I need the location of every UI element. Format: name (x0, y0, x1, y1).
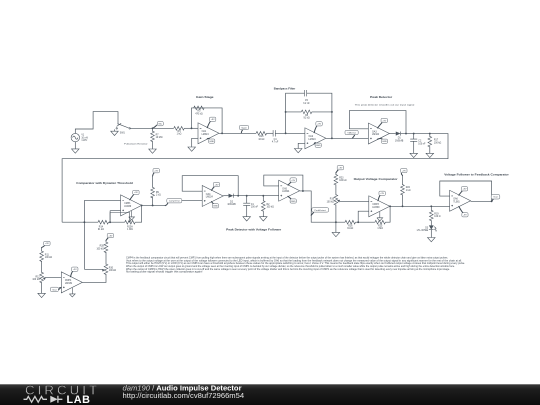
svg-text:4.7 uF: 4.7 uF (272, 142, 279, 144)
wire switch to R7 node (130, 127, 173, 129)
wire switch to ground stem (114, 129, 116, 131)
svg-text:R4: R4 (178, 131, 182, 133)
capacitor C5 (305, 90, 307, 96)
svg-text:100 kΩ: 100 kΩ (327, 201, 335, 203)
wire C1 top stub (246, 196, 248, 204)
svg-text:Vgain: Vgain (241, 127, 247, 129)
svg-text:Peak Detector: Peak Detector (370, 95, 393, 99)
resistor R7 (151, 131, 155, 142)
ground ground at D3 (428, 238, 436, 242)
node flag Vout (vout-oa6) (492, 199, 494, 201)
power flag +9V of OA6 (459, 191, 463, 196)
wire R22 bottom stub (402, 194, 404, 206)
capacitor C4 (273, 130, 275, 136)
wire R13 to C4 (267, 132, 274, 134)
voltage source V1 (71, 133, 79, 141)
wire C2 top stub (413, 134, 415, 140)
svg-text:1 MΩ: 1 MΩ (377, 228, 383, 230)
power flag +9V of OA5 (288, 182, 291, 185)
wire peak node run (233, 195, 278, 197)
node junction R8 branch right (331, 111, 333, 113)
wire OA3 feedback loop (349, 111, 406, 134)
wire OA1 output (219, 132, 256, 134)
power flag GND of OA1 (207, 137, 210, 140)
wire R26 to R25 (356, 221, 375, 223)
wire R17 top stub (429, 134, 431, 137)
svg-text:3.2 nF: 3.2 nF (303, 103, 310, 105)
power flag +9V of OA1 (207, 121, 210, 128)
node junction at D1 cathode (405, 133, 407, 135)
node junction hysteresis CMP3 (357, 221, 359, 223)
node flag Vout (vout-cmp4) (59, 287, 62, 289)
svg-text:LTL-307EE: LTL-307EE (417, 230, 429, 232)
svg-text:1 MΩ: 1 MΩ (127, 229, 133, 231)
potentiometer R30 (104, 264, 108, 275)
svg-text:R22: R22 (406, 187, 411, 189)
resistor R19 (429, 210, 433, 221)
svg-text:R12: R12 (35, 276, 40, 278)
op-amp OA4 (202, 185, 223, 206)
node junction at R7 top (152, 127, 154, 129)
svg-text:R19: R19 (434, 213, 439, 215)
wire R28 to R30 (105, 252, 107, 264)
svg-text:V1: V1 (81, 135, 85, 137)
wire CMP4 non-inverting stub (59, 286, 61, 288)
resistor R22 (401, 184, 405, 195)
svg-text:Vout: Vout (52, 288, 57, 291)
ground ground at OA1 (188, 147, 196, 151)
resistor R3 (194, 106, 205, 110)
wire OA4 output to D2 (223, 195, 228, 197)
wire CompVOut to OA4 non-inverting input (182, 200, 202, 202)
svg-text:91 kΩ: 91 kΩ (347, 228, 353, 230)
power flag +9V of OA3 (378, 122, 383, 128)
svg-text:LM324: LM324 (282, 191, 290, 193)
ground ground at SW1 (111, 131, 119, 135)
svg-text:R11: R11 (45, 254, 50, 256)
node junction at R2 top (262, 195, 264, 197)
svg-text:R9: R9 (156, 192, 160, 194)
svg-text:OA5: OA5 (282, 188, 287, 191)
node flag CompVOut (compvout) (165, 203, 168, 205)
svg-text:100 kΩ: 100 kΩ (96, 248, 104, 250)
node junction at OA1 inverting input (191, 127, 193, 129)
svg-text:OA1: OA1 (202, 130, 207, 133)
ground ground at R12 (38, 293, 46, 297)
svg-text:R2: R2 (267, 204, 271, 206)
switch SW1 (117, 123, 129, 128)
svg-text:10 MΩ: 10 MΩ (156, 137, 163, 139)
svg-text:Pull-Down Resistor: Pull-Down Resistor (124, 143, 148, 146)
svg-text:Voltage Follower to Feedback C: Voltage Follower to Feedback Comparator (444, 173, 509, 177)
svg-text:91 kΩ: 91 kΩ (98, 229, 104, 231)
wire OA3 output to D1 (389, 133, 395, 135)
power flag GND of CMP3 (377, 212, 383, 221)
node junction at R9 bottom (152, 204, 154, 206)
svg-text:R14: R14 (99, 226, 104, 228)
svg-text:C2: C2 (418, 141, 422, 143)
node junction at OA2 output (331, 137, 333, 139)
svg-text:Peak Detector with Voltage Fol: Peak Detector with Voltage Follower (226, 228, 282, 232)
svg-text:OA2: OA2 (309, 135, 314, 138)
ground ground at OA2 (294, 149, 302, 153)
node junction at R17 (429, 133, 431, 135)
node flag Vgain (vgain) (241, 130, 242, 133)
power flag +9V of OA4 (211, 187, 214, 191)
svg-text:CompVOut: CompVOut (169, 200, 180, 203)
wire OA5 feedback loop (264, 175, 303, 191)
power flag +9V (CMP1 VCC) (130, 194, 134, 200)
wire R4 to OA1 inverting input (184, 127, 198, 129)
wire C2 to ground (413, 141, 415, 153)
ground ground at R2 (260, 217, 268, 221)
wire OA4 feedback loop (182, 176, 238, 196)
wire R22 top stub (402, 175, 404, 185)
wire CMP4 output riser (82, 274, 106, 282)
wire V1 top to switch (75, 112, 118, 134)
node junction at R16 bottom (335, 221, 337, 223)
svg-text:CMP4: CMP4 (65, 280, 72, 282)
comparator CMP1 (121, 195, 142, 216)
power flag GND of OA2 (314, 143, 316, 144)
wire R12 to ground (41, 282, 43, 293)
wire R25 to CMP3 output riser (385, 206, 390, 222)
svg-text:CMP3: CMP3 (372, 204, 379, 206)
op-amp OA5 (279, 180, 300, 201)
svg-text:91 kΩ: 91 kΩ (304, 118, 310, 120)
svg-text:TL081: TL081 (453, 201, 460, 203)
resistor R11 (40, 251, 44, 262)
node junction at OA6 output (491, 200, 493, 202)
capacitor C1 (243, 203, 250, 205)
wire LED to ground (430, 230, 432, 238)
svg-text:R7: R7 (156, 134, 160, 136)
op-amp OA1 (198, 123, 219, 144)
svg-text:1N914B: 1N914B (395, 140, 404, 142)
resistor R17 (428, 136, 432, 147)
wire R23 top stub (335, 173, 337, 175)
svg-text:R15A: R15A (127, 225, 133, 228)
ground ground at V1 (72, 149, 80, 153)
svg-text:R28: R28 (100, 246, 105, 248)
node junction hysteresis mid (109, 221, 111, 223)
svg-text:1 kHz: 1 kHz (81, 140, 88, 142)
svg-text:http://circuitlab.com/cv8uf729: http://circuitlab.com/cv8uf72966m54 (123, 391, 245, 400)
svg-text:100 kΩ: 100 kΩ (434, 142, 442, 144)
node junction at OA5 output (302, 190, 304, 192)
svg-text:C4: C4 (274, 139, 278, 141)
node junction at CMP1 output (141, 204, 143, 206)
ground ground at C1 (243, 217, 251, 221)
wire R7 top stub (152, 128, 154, 131)
power flag +9V (CMP3 VCC) (378, 195, 380, 201)
node junction at C1 top (246, 195, 248, 197)
wire R28 top stub (105, 240, 107, 242)
svg-text:LM324: LM324 (309, 139, 317, 141)
resistor R28 (104, 242, 108, 253)
potentiometer R15A (125, 220, 136, 224)
svg-text:LM339: LM339 (372, 207, 380, 209)
wire R11 to R12 (41, 261, 43, 273)
svg-text:100 kΩ: 100 kΩ (45, 257, 53, 259)
svg-text:LM324: LM324 (206, 196, 214, 198)
ground ground at C2 (410, 153, 418, 157)
svg-text:LM324: LM324 (372, 134, 380, 136)
power flag GND of OA4 (211, 202, 213, 204)
wire V1 to ground (74, 142, 76, 149)
wire bandpass feedback R8 branch (286, 111, 332, 113)
wire R19 to LED (430, 220, 432, 225)
wire R2 to ground (262, 211, 264, 217)
wire R30 wiper to CMP1 threshold (84, 268, 102, 270)
wire CMP1 non-inverting input riser (110, 211, 121, 223)
svg-text:100 nF: 100 nF (251, 207, 259, 209)
wire hysteresis run along y=222.2 (62, 205, 142, 222)
wire OA2 non-inverting input to ground (298, 143, 305, 148)
power flag +9V (R28 supply) (106, 237, 109, 240)
wire CMP1 output (142, 204, 166, 206)
svg-text:Bandpass Filter: Bandpass Filter (274, 86, 296, 90)
power flag -9V of OA6 (459, 206, 463, 213)
wire R7 bottom stub (152, 141, 154, 149)
resistor R26 (345, 220, 356, 224)
op-amp OA2 (305, 128, 326, 149)
svg-text:R13: R13 (259, 136, 264, 138)
node junction hysteresis left (83, 221, 85, 223)
svg-text:100 nF: 100 nF (418, 143, 426, 145)
power flag +9V (CMP4 VCC) (71, 271, 73, 277)
svg-text:R26: R26 (348, 226, 353, 228)
svg-text:10 kΩ: 10 kΩ (258, 139, 264, 141)
resistor R8 (301, 110, 312, 114)
power flag +9V (R22 supply) (401, 172, 402, 175)
ground ground at R16 (332, 232, 340, 236)
svg-text:VMixOut: VMixOut (347, 131, 356, 134)
svg-text:C1: C1 (251, 204, 255, 206)
wire OA6 output (471, 200, 492, 202)
node flag Mic (mic) (154, 125, 157, 128)
node junction at bandpass input (285, 132, 287, 134)
wire R23 to R16 (335, 185, 337, 196)
capacitor C2 (410, 139, 417, 141)
power flag GND of OA3 (378, 138, 383, 141)
svg-text:R8: R8 (305, 115, 309, 117)
svg-text:LAB: LAB (67, 394, 91, 405)
svg-text:100 kΩ: 100 kΩ (109, 270, 117, 272)
svg-text:10 mV: 10 mV (81, 137, 88, 139)
node junction at OA1 output (221, 132, 223, 134)
wire CMP1 inverting input riser (84, 200, 120, 269)
svg-text:D2: D2 (230, 201, 234, 203)
power flag +9V (R9 pull-up) (153, 173, 155, 177)
op-amp OA3 (368, 123, 389, 144)
resistor R13 (256, 131, 267, 135)
wire C1 to ground (246, 205, 248, 216)
svg-text:SW1: SW1 (120, 133, 126, 135)
svg-text:1N914B: 1N914B (227, 204, 236, 206)
svg-text:LM339: LM339 (124, 206, 132, 208)
wire CMP3 non-inverting stub (358, 211, 369, 222)
power flag +9V of OA2 (314, 126, 317, 133)
svg-text:OA4: OA4 (206, 193, 211, 196)
comparator CMP4 (61, 272, 82, 293)
node junction at R22 bottom (402, 205, 404, 207)
node junction at CMP3 output (389, 205, 391, 207)
comparator CMP3 (369, 196, 390, 217)
svg-text:Output Voltage Comparator: Output Voltage Comparator (354, 177, 399, 181)
node flag VMixOut (vmixout) (352, 135, 354, 138)
resistor R25 (375, 220, 386, 224)
svg-text:C5: C5 (305, 100, 309, 102)
node junction at R19 top (430, 205, 432, 207)
svg-text:R17: R17 (434, 140, 439, 142)
wire R19 top stub (430, 206, 432, 210)
resistor R23 (334, 175, 338, 186)
svg-text:100 kΩ: 100 kΩ (267, 207, 275, 209)
svg-text:100 Ω: 100 Ω (434, 216, 440, 218)
svg-text:This peak detector smooths out: This peak detector smooths out our input… (355, 104, 415, 107)
svg-text:No lasting pulse signal should: No lasting pulse signal should trigger t… (126, 271, 203, 274)
ground ground at R17 (426, 153, 434, 157)
power flag GND of CMP1 (129, 211, 135, 220)
wire OA2 output to OA3 (326, 137, 369, 139)
svg-text:R25: R25 (378, 226, 383, 228)
svg-text:1 kΩ: 1 kΩ (406, 190, 411, 192)
node junction R8 branch left (285, 111, 287, 113)
svg-text:D3: D3 (425, 227, 429, 229)
wire OA1 non-inverting input to ground (192, 138, 198, 147)
svg-text:D1: D1 (398, 138, 402, 140)
svg-text:Comparator with Dynamic Thresh: Comparator with Dynamic Threshold (76, 181, 133, 185)
wire OA1 feedback loop (192, 108, 223, 133)
CircuitLab logo symbol (resistor and diode) (24, 396, 48, 402)
wire R2 top stub (262, 196, 264, 202)
node flag PeakDetect (peakdetect) (311, 213, 313, 216)
svg-text:LM339: LM339 (65, 283, 73, 285)
potentiometer R12 (40, 272, 44, 283)
svg-text:R16: R16 (330, 199, 335, 201)
svg-text:R3: R3 (197, 111, 201, 113)
svg-text:470 kΩ: 470 kΩ (195, 113, 203, 115)
power flag GND of CMP4 (69, 288, 75, 297)
svg-text:100 kΩ: 100 kΩ (339, 180, 347, 182)
svg-text:Vout: Vout (493, 196, 498, 199)
wire R9 top stub (152, 176, 154, 188)
wire R17 to ground (429, 146, 431, 153)
svg-text:CMP1: CMP1 (124, 203, 131, 205)
wire R11 top stub (41, 248, 43, 252)
svg-text:R30: R30 (109, 267, 114, 269)
power flag GND of OA5 (288, 196, 291, 199)
wire OA5 output down to comparator network (300, 191, 345, 222)
wire C4 to bandpass input (275, 132, 305, 134)
node junction at C2 (413, 133, 415, 135)
diode D2 (229, 194, 234, 198)
svg-text:100 kΩ: 100 kΩ (32, 279, 40, 281)
wire R16 to ground (335, 205, 337, 233)
svg-text:OA6: OA6 (453, 198, 458, 201)
wire R9 bottom stub (152, 197, 154, 205)
resistor R2 (261, 201, 265, 212)
power flag +9V (R23 supply) (336, 170, 339, 173)
diode D1 (396, 131, 401, 135)
power flag +9V (R11 supply) (42, 245, 45, 247)
wire OA6 feedback loop (440, 181, 492, 201)
ground ground at R7 (149, 149, 157, 153)
svg-text:Gain Stage: Gain Stage (196, 95, 214, 99)
LED D3 (429, 225, 434, 229)
potentiometer R16 (334, 195, 338, 206)
resistor R4 (174, 126, 185, 130)
op-amp OA6 (450, 190, 471, 211)
node junction at D2 cathode (237, 195, 239, 197)
resistor R14 (98, 220, 109, 224)
svg-text:R23: R23 (339, 177, 344, 179)
wire peak detector output run (62, 134, 448, 223)
wire CMP3 output run (390, 205, 450, 207)
svg-text:LM324: LM324 (202, 134, 210, 136)
wire bandpass feedback outer loop (C5 branch) (286, 93, 332, 138)
resistor R9 (151, 187, 155, 198)
svg-text:OA3: OA3 (372, 130, 377, 133)
svg-text:PeakDetect: PeakDetect (315, 209, 327, 212)
svg-text:1 kΩ: 1 kΩ (156, 195, 161, 197)
svg-text:1 kΩ: 1 kΩ (177, 134, 182, 136)
